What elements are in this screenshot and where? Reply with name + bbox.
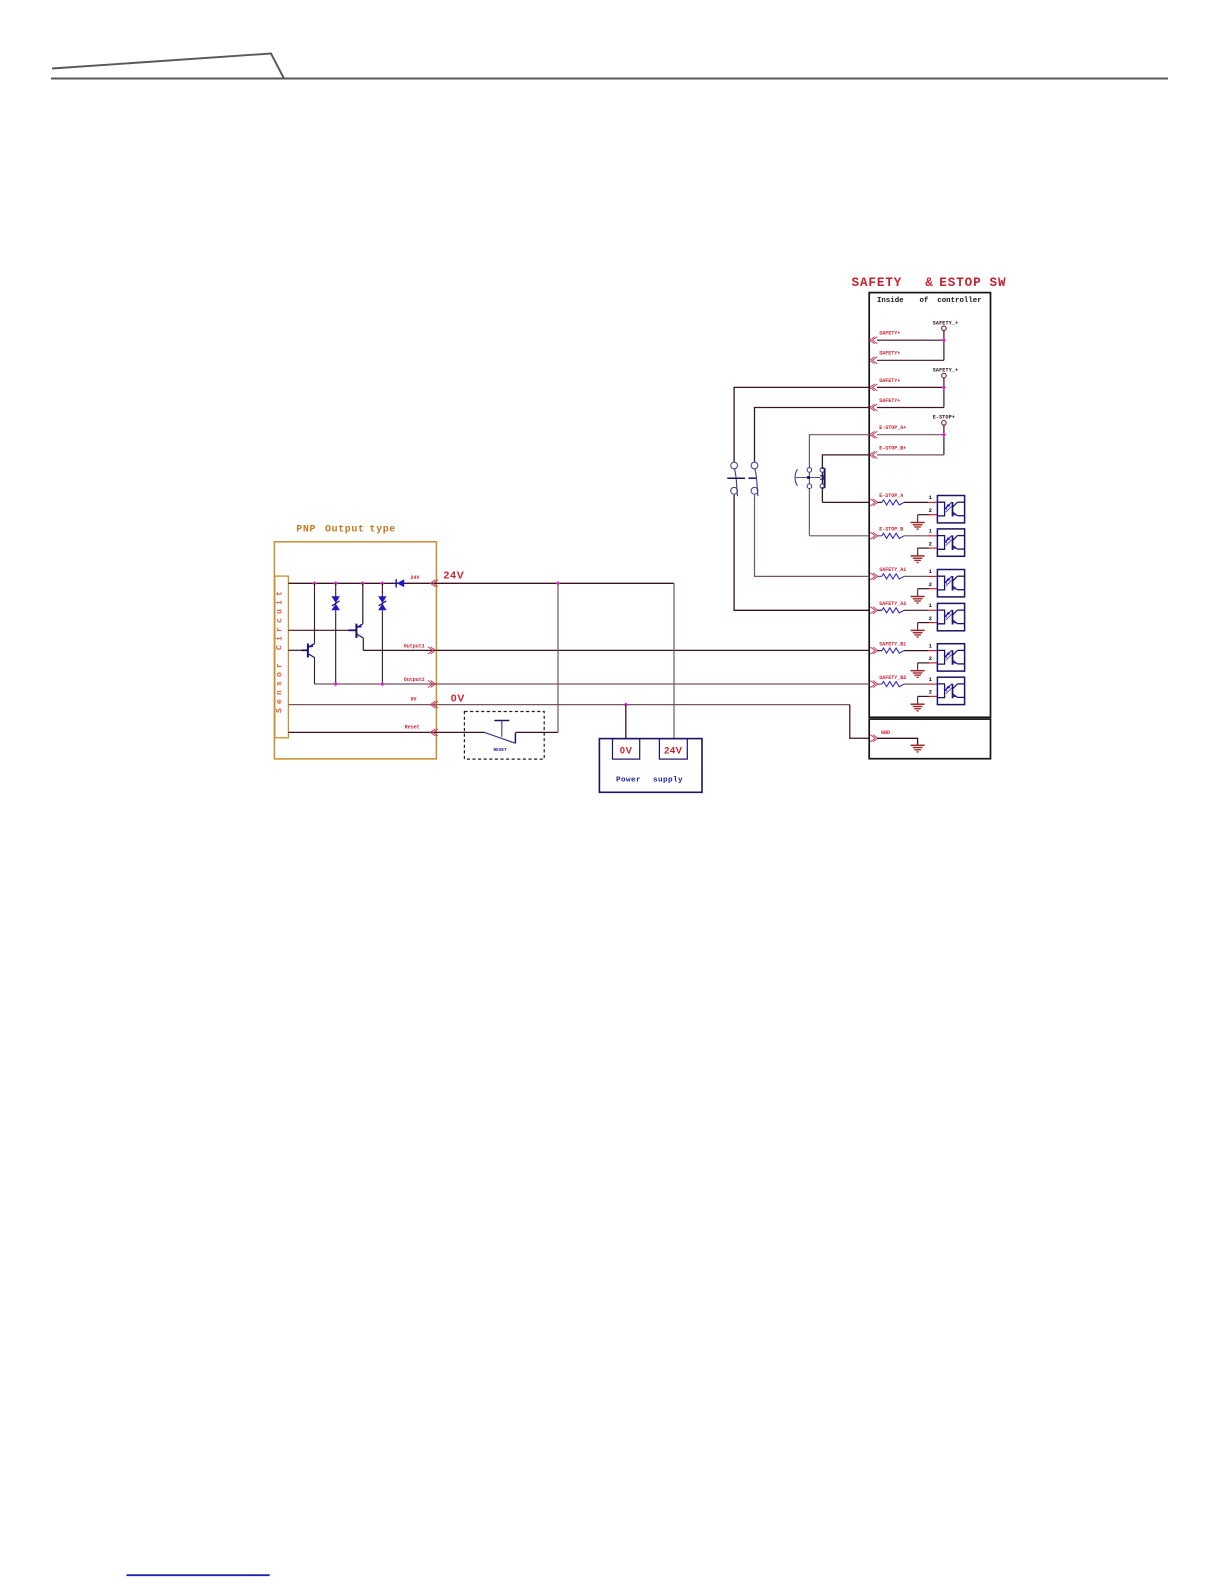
wire SAFETY_A1 resistor to opto pin 1	[904, 575, 928, 577]
wire Z1 vertical 24V to Output2	[335, 583, 337, 596]
wire 0V corner to GND connector	[850, 705, 869, 739]
PNP sensor outer box	[274, 542, 436, 759]
header rule line	[51, 78, 1168, 80]
svg-text:2: 2	[929, 540, 933, 547]
svg-text:Output1: Output1	[404, 644, 425, 650]
wire SAFETY+ row	[877, 386, 944, 388]
sensor circuit sub-box	[275, 576, 289, 738]
svg-text:1: 1	[929, 568, 933, 575]
svg-text:SAFETY: SAFETY	[852, 276, 903, 290]
connector SAFETY_A2	[870, 607, 875, 614]
wire 24V rail to power supply tab	[673, 583, 675, 738]
svg-text:2: 2	[929, 615, 933, 622]
wire SAFETY_B1 to resistor	[878, 650, 882, 652]
ground symbol for SAFETY_B2	[911, 703, 925, 705]
wire SAFETY_B2 to resistor	[878, 683, 882, 685]
svg-text:controller: controller	[937, 297, 981, 305]
svg-text:1: 1	[929, 642, 933, 649]
TVS diode Z2	[378, 596, 386, 610]
connector GND	[870, 735, 875, 742]
wire E-STOP_A+ row	[877, 434, 944, 436]
svg-text:type: type	[370, 524, 396, 535]
svg-text:2: 2	[929, 581, 933, 588]
wire door switch 2 to SAFETY_A1	[755, 495, 870, 577]
ground symbol for SAFETY_A2	[911, 629, 925, 631]
resistor SAFETY_B2	[882, 682, 904, 687]
optocoupler SAFETY_A2	[937, 603, 964, 630]
wire SAFETY+ row	[877, 339, 944, 341]
wire Q1 collector to 24V	[362, 583, 364, 624]
wire SAFETY_A2 to resistor	[878, 609, 882, 611]
wire SAFETY+ (row4) to door switch 2	[755, 408, 870, 462]
wire SAFETY_B1 resistor to opto pin 1	[904, 650, 928, 652]
wire SAFETY+ row	[877, 359, 944, 361]
svg-text:SAFETY+: SAFETY+	[879, 398, 900, 404]
wire Reset	[288, 731, 484, 733]
svg-text:SW: SW	[990, 276, 1007, 290]
svg-text:Output2: Output2	[404, 677, 425, 683]
connector SAFETY+	[870, 337, 875, 344]
controller lower box (GND section)	[869, 719, 990, 759]
net SAFETY_+ vertical tie wire	[943, 378, 945, 408]
wire E-STOP contact left to E-STOP_B	[809, 535, 869, 537]
connector Reset	[430, 729, 435, 736]
junction dot 0V to power supply	[624, 702, 628, 706]
svg-text:E-STOP+: E-STOP+	[933, 415, 955, 421]
connector SAFETY+	[870, 404, 875, 411]
wire opto pin 2 to ground	[918, 622, 929, 624]
optocoupler SAFETY_A1	[937, 570, 964, 597]
svg-text:2: 2	[929, 689, 933, 696]
connector SAFETY_B2	[870, 681, 875, 688]
optocoupler E-STOP_B	[937, 529, 964, 556]
connector E-STOP_B	[870, 532, 875, 539]
resistor SAFETY_A2	[882, 608, 904, 613]
wire E-STOP_B resistor to opto pin 1	[904, 535, 928, 537]
svg-text:Output: Output	[325, 524, 365, 535]
svg-text:E-STOP_B: E-STOP_B	[879, 527, 903, 533]
wire E-STOP_B+ to E-STOP contact right	[822, 455, 869, 503]
power supply 24V tab	[659, 739, 687, 760]
svg-text:PNP: PNP	[296, 524, 316, 535]
wire Output1	[363, 649, 869, 651]
power supply 0V tab	[613, 739, 640, 760]
wire E-STOP_B to resistor	[878, 535, 882, 537]
wire opto pin 2 to ground	[918, 588, 929, 590]
svg-text:E-STOP_B+: E-STOP_B+	[879, 445, 906, 451]
svg-text:24V: 24V	[411, 575, 420, 581]
E-STOP pushbutton SW	[795, 468, 825, 489]
wire 0V	[288, 704, 849, 706]
net E-STOP+ vertical tie wire	[943, 425, 945, 455]
transistor Q1	[356, 624, 363, 638]
wire Q2 emitter to Output2 corner	[314, 658, 316, 685]
svg-text:of: of	[920, 297, 929, 305]
svg-text:2: 2	[929, 507, 933, 514]
wire 0V to power supply tab	[625, 705, 627, 739]
wire E-STOP_A resistor to opto pin 1	[904, 501, 928, 503]
svg-text:Power: Power	[616, 776, 641, 784]
door safety switch 2	[748, 462, 758, 496]
resistor SAFETY_A1	[882, 574, 904, 579]
wire E-STOP contact right to E-STOP_A	[822, 501, 869, 503]
svg-text:1: 1	[929, 676, 933, 683]
svg-text:24V: 24V	[664, 745, 683, 756]
wire E-STOP_B+ row	[877, 454, 944, 456]
connector 0V	[430, 701, 435, 708]
wire SAFETY+ (row3) to door switch 1	[734, 387, 869, 461]
transistor Q2	[308, 644, 315, 658]
connector 24V (sensor)	[430, 580, 435, 587]
svg-text:SAFETY+: SAFETY+	[879, 351, 900, 357]
svg-text:E-STOP_A+: E-STOP_A+	[879, 425, 906, 431]
svg-text:GND: GND	[881, 730, 890, 736]
wire Z2 vertical 24V to Output2	[381, 583, 383, 596]
svg-text:E-STOP_A: E-STOP_A	[879, 493, 903, 499]
wire Q2 collector to 24V	[314, 583, 316, 643]
wire opto pin 2 to ground	[918, 514, 929, 516]
resistor E-STOP_A	[882, 500, 904, 505]
svg-text:1: 1	[929, 602, 933, 609]
ground symbol for E-STOP_B	[911, 555, 925, 557]
optocoupler E-STOP_A	[937, 496, 964, 523]
RESET pushbutton switch	[485, 721, 516, 744]
junction dot E-STOP+	[942, 433, 946, 437]
svg-text:Reset: Reset	[405, 724, 420, 730]
wire opto pin 2 to ground	[918, 695, 929, 697]
connector Output2	[428, 681, 433, 688]
wire 24V rail (sensor to power supply corner)	[288, 582, 674, 584]
connector E-STOP_A	[870, 499, 875, 506]
svg-text:Sensor Circuit: Sensor Circuit	[276, 587, 285, 713]
ground symbol GND	[911, 744, 925, 746]
wire E-STOP_A to resistor	[878, 501, 882, 503]
wire opto pin 2 to ground	[918, 662, 929, 664]
svg-text:SAFETY_B1: SAFETY_B1	[879, 641, 906, 647]
resistor E-STOP_B	[882, 533, 904, 538]
footer blue underline	[127, 1574, 270, 1576]
optocoupler SAFETY_B2	[937, 677, 964, 704]
ground symbol for SAFETY_A1	[911, 596, 925, 598]
wire Q1 base	[288, 629, 348, 631]
svg-text:2: 2	[929, 655, 933, 662]
wire door switch 1 to SAFETY_A2	[734, 495, 869, 611]
connector SAFETY+	[870, 357, 875, 364]
connector SAFETY_A1	[870, 573, 875, 580]
connector Output1	[428, 647, 433, 654]
wire SAFETY+ row	[877, 407, 944, 409]
svg-text:0V: 0V	[451, 692, 465, 704]
TVS diode Z1	[332, 596, 340, 610]
junction dots on 24V rail	[312, 581, 316, 585]
wire Reset switch to 24V rail	[515, 731, 558, 733]
svg-text:SAFETY+: SAFETY+	[879, 378, 900, 384]
svg-text:0V: 0V	[411, 697, 417, 703]
wire opto pin 2 to ground	[918, 547, 929, 549]
svg-text:24V: 24V	[444, 570, 465, 582]
resistor SAFETY_B1	[882, 648, 904, 653]
junction dots on Output2	[334, 682, 338, 686]
wire E-STOP_A+ to E-STOP contact left	[809, 435, 869, 536]
wire SAFETY_B2 resistor to opto pin 1	[904, 683, 928, 685]
svg-text:0V: 0V	[620, 745, 633, 756]
connector E-STOP_B+	[870, 451, 875, 458]
svg-text:&: &	[925, 276, 933, 290]
ground symbol for E-STOP_A	[911, 522, 925, 524]
svg-text:SAFETY_+: SAFETY_+	[933, 320, 959, 326]
svg-text:1: 1	[929, 528, 933, 535]
svg-text:SAFETY_+: SAFETY_+	[933, 368, 959, 374]
wire SAFETY_A1 to resistor	[878, 575, 882, 577]
connector E-STOP_A+	[870, 431, 875, 438]
net SAFETY_+ vertical tie wire	[943, 331, 945, 361]
svg-text:1: 1	[929, 494, 933, 501]
RESET pushbutton dashed box	[464, 712, 544, 760]
wire Q2 base	[288, 649, 301, 651]
svg-text:RESET: RESET	[494, 748, 508, 753]
connector SAFETY+	[870, 384, 875, 391]
svg-text:Inside: Inside	[877, 297, 904, 305]
svg-text:supply: supply	[653, 776, 683, 784]
wire SAFETY_A2 resistor to opto pin 1	[904, 609, 928, 611]
wire GND	[878, 738, 918, 745]
svg-text:ESTOP: ESTOP	[939, 276, 981, 290]
power supply box	[599, 739, 702, 793]
door safety switch 1	[727, 462, 745, 496]
svg-text:SAFETY_A1: SAFETY_A1	[879, 567, 906, 573]
ground symbol for SAFETY_B1	[911, 670, 925, 672]
svg-text:SAFETY+: SAFETY+	[879, 331, 900, 337]
wire Q1 emitter to Output1	[362, 638, 364, 650]
junction dot SAFETY_+	[942, 338, 946, 342]
svg-text:SAFETY_B2: SAFETY_B2	[879, 675, 906, 681]
optocoupler SAFETY_B1	[937, 644, 964, 671]
header slanted tab shape	[52, 54, 284, 79]
svg-text:SAFETY_A2: SAFETY_A2	[879, 601, 906, 607]
junction dot SAFETY_+	[942, 385, 946, 389]
connector SAFETY_B1	[870, 647, 875, 654]
controller upper box (Inside of controller)	[869, 293, 990, 718]
wire Output2	[315, 683, 870, 685]
diode D1 on 24V rail	[395, 579, 397, 587]
